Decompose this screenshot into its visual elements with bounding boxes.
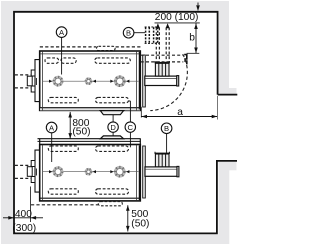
wall terminal squiggle: [184, 55, 187, 65]
dashed elbow cap: [145, 27, 159, 43]
bottom unit centerline: [42, 171, 138, 173]
bottom unit centerline arrow 3: [110, 170, 113, 173]
wall grey right upper foot: [219, 88, 237, 95]
dim 800 line: [69, 112, 71, 139]
svg-text:(50): (50): [72, 127, 90, 138]
svg-text:(50): (50): [131, 219, 149, 230]
dim b line: [195, 23, 197, 53]
bottom unit second top line: [38, 140, 141, 142]
dashed hidden pipe horizontals to wall: [141, 55, 184, 62]
dim 800 down arrow: [68, 133, 72, 139]
wall down arrow above: [196, 5, 200, 11]
top unit inner bottom line: [40, 107, 140, 109]
svg-text:C: C: [128, 123, 134, 132]
label D leader down: [112, 132, 114, 136]
top unit centerline arrow 3: [110, 80, 113, 83]
label C: [125, 122, 135, 132]
bottom unit inner bottom line: [40, 197, 140, 199]
top unit flue duct inner line: [145, 77, 177, 79]
top unit vent slot row1 a: [45, 58, 59, 63]
bottom unit vent slot row1 a: [48, 146, 78, 151]
top unit flange circle 1: [54, 77, 62, 85]
short solid line at terminal: [187, 52, 200, 54]
label D leader up: [112, 115, 114, 122]
top unit flange circle 3: [115, 77, 124, 86]
bottom unit left pipe box: [27, 167, 32, 177]
top unit flue cylinder body: [155, 63, 169, 76]
bottom unit dashed wall pipe lower: [15, 177, 31, 179]
dim 400 ext line: [30, 187, 32, 223]
top unit dashed back line: [40, 46, 141, 48]
top unit inner top line: [40, 53, 140, 55]
wall grey right upper: [219, 1, 229, 94]
top unit flue duct: [145, 76, 177, 85]
wall grey left band: [1, 1, 13, 235]
top unit centerline arrow 2: [93, 80, 96, 83]
bottom unit flue cylinder ribs: [159, 154, 166, 167]
top unit left tab lower: [31, 86, 35, 92]
dim 800 up arrow: [68, 112, 72, 118]
top unit flue cylinder cap: [155, 62, 170, 64]
dim 400 left arrow: [8, 216, 14, 220]
dashed hidden flue vertical pair right: [166, 28, 169, 62]
top unit body outer rect: [40, 51, 141, 110]
top unit vent slot row2 a: [48, 97, 78, 102]
bottom unit flange circle 1: [54, 168, 62, 176]
bottom unit inner left line: [42, 145, 44, 201]
top unit inner bottom band: [40, 108, 140, 111]
label D: [108, 122, 118, 132]
dim 400 left tail: [3, 217, 14, 219]
dim 400 right arrow: [31, 216, 36, 220]
top unit left pipe box: [27, 76, 32, 86]
bottom unit dashed wall pipe upper: [15, 164, 31, 166]
wall grey top band: [1, 1, 229, 11]
bottom unit door handle (top side): [100, 136, 123, 139]
top unit left bracket: [35, 60, 40, 102]
top unit small circle 2: [86, 78, 92, 84]
svg-text:b: b: [189, 33, 195, 44]
dim a line: [142, 116, 218, 118]
top unit centerline: [42, 80, 138, 82]
label C leader up: [128, 101, 130, 122]
bottom unit vent slot row2 a: [48, 189, 78, 194]
label C leader down: [129, 132, 131, 147]
dim 400 right tail: [31, 217, 43, 219]
dim 400 mid line: [14, 217, 31, 219]
dashed hidden flue vertical pair left: [156, 28, 159, 62]
bottom unit vent slot row1 b: [96, 146, 129, 151]
bottom unit small circle 2: [86, 169, 92, 175]
label B mid: [161, 123, 172, 134]
top unit left inner tick: [35, 78, 37, 85]
bottom unit outer door line: [38, 138, 141, 140]
dim 500 line: [127, 205, 129, 231]
dim b down arrow: [194, 48, 198, 54]
bottom unit flue cylinder cap: [155, 152, 170, 154]
svg-text:a: a: [177, 107, 183, 118]
wall inner outline upper (top, left, bottom, right-upper): [14, 12, 237, 234]
bottom unit right panel: [143, 146, 146, 198]
top unit dashed wall pipe upper: [15, 74, 31, 76]
wall grey right lower cap: [219, 162, 237, 170]
dim 200 up arrow b: [166, 23, 170, 28]
dim 200 up arrow a: [156, 23, 160, 28]
bottom unit dashed clearance line below: [31, 204, 98, 206]
door swing dashed arc: [150, 54, 187, 111]
bottom unit body outer rect: [40, 145, 141, 201]
label B mid leader: [166, 134, 168, 153]
top unit dashed top slot: [97, 46, 116, 50]
dim a left arrow: [142, 115, 148, 119]
top unit vent slot row1 b: [95, 58, 131, 63]
dim 200 line: [155, 22, 200, 24]
bottom unit flue duct inner line: [145, 168, 177, 170]
bottom unit centerline arrow 1: [49, 170, 52, 173]
wall grey bottom band: [1, 235, 229, 245]
svg-text:400: 400: [15, 209, 32, 220]
label B top leader: [134, 32, 145, 34]
label A mid leader: [51, 133, 53, 162]
label B top: [123, 27, 134, 38]
label A top: [56, 27, 67, 38]
label A top leader: [61, 38, 63, 75]
bottom unit vent slot row2 b: [96, 189, 129, 194]
bottom unit flue duct: [145, 167, 177, 176]
top unit centerline arrow 1: [49, 80, 52, 83]
bottom unit centerline arrow 2: [93, 170, 96, 173]
bottom unit flue cylinder body: [155, 154, 169, 167]
dim 500 down arrow: [126, 226, 130, 232]
top unit door handle: [100, 111, 123, 115]
bottom unit centerline arrow 4: [126, 170, 129, 173]
top unit inner left line: [42, 51, 44, 110]
dim a wall ext line: [217, 96, 219, 120]
top unit flue cylinder ribs: [159, 64, 166, 77]
bottom unit flue duct end cap: [177, 166, 179, 176]
label A mid: [46, 122, 57, 133]
top unit vent slot row1 a2: [61, 58, 76, 63]
top unit inner right line: [135, 51, 137, 110]
top unit vent slot row2 b: [96, 97, 129, 102]
dashed elbow component (B): [146, 27, 158, 43]
svg-text:B: B: [126, 29, 131, 38]
bottom unit left tab lower: [31, 177, 35, 183]
svg-text:D: D: [110, 123, 116, 132]
wall grey right lower: [219, 162, 230, 244]
top unit flue duct end cap: [177, 76, 179, 86]
bottom unit top strip: [40, 139, 141, 145]
dim a right arrow: [212, 115, 218, 119]
dim 500 up arrow: [126, 205, 130, 211]
bottom unit flange circle 3: [115, 167, 124, 176]
svg-text:200 (100): 200 (100): [155, 12, 199, 23]
top unit centerline arrow 4: [126, 80, 129, 83]
top unit left tab upper: [31, 70, 35, 76]
top unit dashed wall pipe lower: [15, 87, 31, 89]
bottom unit dashed bottom slot: [98, 202, 122, 206]
bottom unit left inner tick: [35, 169, 37, 176]
bottom unit inner right line: [135, 145, 137, 201]
bottom unit left tab upper: [31, 161, 35, 167]
top unit right panel: [143, 55, 146, 107]
svg-text:(300): (300): [12, 223, 36, 234]
dim a ext line: [140, 107, 142, 118]
svg-text:B: B: [164, 124, 169, 133]
dim b up arrow: [194, 24, 198, 30]
bottom unit left bracket: [35, 150, 40, 192]
wall right-upper step line: [218, 94, 238, 96]
